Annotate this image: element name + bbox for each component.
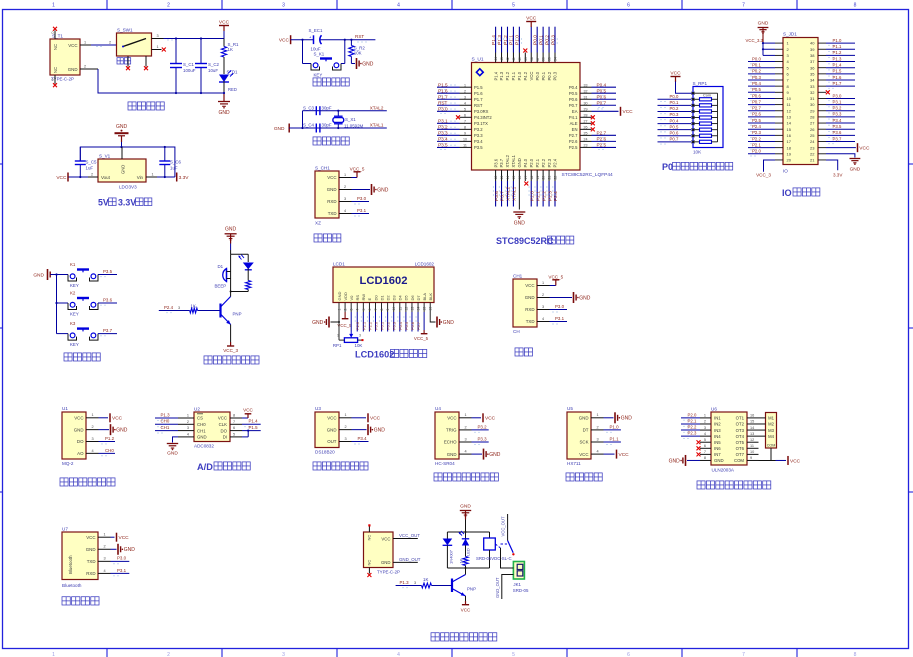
- svg-text:P0.6: P0.6: [569, 97, 578, 102]
- svg-text:P2.5: P2.5: [597, 143, 607, 148]
- svg-text:BLK: BLK: [428, 293, 433, 301]
- svg-text:CH0: CH0: [161, 419, 170, 424]
- power port VCC hx711: [604, 450, 630, 459]
- svg-text:16: 16: [518, 176, 522, 180]
- capacitor S_EC1 10uF electrolytic: [309, 28, 323, 52]
- svg-text:39: 39: [524, 57, 528, 61]
- ground GND crystal: [274, 124, 289, 133]
- svg-text:ECHO: ECHO: [444, 440, 457, 445]
- diode 1N4007 flyback: [443, 532, 454, 568]
- ground GND mcu: [513, 212, 525, 227]
- svg-text:1: 1: [344, 173, 346, 177]
- svg-text:1: 1: [542, 281, 544, 285]
- svg-text:GND: GND: [758, 21, 769, 27]
- svg-text:13: 13: [750, 432, 754, 436]
- svg-text:TYPE-C-2P: TYPE-C-2P: [51, 77, 74, 82]
- svg-text:OT2: OT2: [736, 422, 745, 427]
- svg-text:OT4: OT4: [736, 434, 745, 439]
- connector S_CH1 XZ download: [315, 166, 352, 226]
- regulator S_V1 LDO3V3: [98, 147, 146, 190]
- svg-text:3: 3: [464, 95, 466, 99]
- svg-text:GND: GND: [377, 187, 389, 193]
- svg-text:7: 7: [374, 309, 378, 311]
- svg-text:S_C6: S_C6: [170, 160, 182, 165]
- svg-text:Vout: Vout: [101, 175, 111, 180]
- svg-text:3: 3: [282, 3, 285, 9]
- wire net P0.7 to RP1: [658, 137, 692, 145]
- ground GND lcd left: [312, 312, 340, 328]
- label P0 pullup circuit: [662, 162, 733, 172]
- svg-text:U1: U1: [62, 406, 68, 411]
- wire lcd D0 net P0.0: [373, 312, 378, 332]
- svg-text:3: 3: [414, 581, 416, 585]
- net label P1.1 hx711: [604, 436, 621, 444]
- svg-text:P1.2: P1.2: [833, 50, 842, 55]
- svg-text:RS: RS: [355, 295, 360, 301]
- svg-text:VCC: VCC: [218, 416, 227, 421]
- svg-text:37: 37: [810, 59, 815, 64]
- resistor S_R1 1K: [221, 39, 239, 58]
- wire net P3.1 io: [826, 99, 855, 106]
- wire net P1.5 io: [826, 69, 855, 76]
- svg-text:VCC: VCC: [219, 19, 230, 25]
- svg-text:GND: GND: [121, 165, 126, 174]
- svg-text:P0.5: P0.5: [597, 88, 607, 93]
- svg-text:VCC: VCC: [485, 416, 496, 422]
- power port VCC adc: [242, 408, 254, 419]
- svg-text:3.3V: 3.3V: [179, 175, 190, 181]
- svg-text:1K: 1K: [423, 577, 428, 582]
- ground GND reset: [351, 58, 373, 69]
- svg-text:P3.2: P3.2: [474, 127, 483, 132]
- svg-text:39: 39: [810, 47, 815, 52]
- power port VCC_5 download: [350, 166, 365, 177]
- svg-text:3: 3: [187, 426, 189, 430]
- pin 5 left P3.0RX: [437, 106, 489, 114]
- motor connector M1-M4: [759, 413, 777, 449]
- svg-text:1N4007: 1N4007: [449, 549, 454, 564]
- svg-text:P1.1: P1.1: [511, 71, 516, 80]
- svg-text:S_EC1: S_EC1: [309, 28, 323, 33]
- svg-text:GND: GND: [669, 458, 681, 464]
- wire net P0.7 io: [748, 99, 775, 106]
- svg-text:MQ-2: MQ-2: [62, 461, 74, 466]
- svg-text:D6: D6: [410, 295, 415, 301]
- svg-text:1: 1: [464, 83, 466, 87]
- label alarm circuit: [204, 356, 259, 364]
- svg-text:P3.0RX: P3.0RX: [474, 109, 489, 114]
- svg-text:4: 4: [344, 209, 346, 213]
- svg-text:P0.0: P0.0: [373, 321, 378, 330]
- svg-text:P2.4: P2.4: [553, 158, 558, 167]
- svg-text:P0.1: P0.1: [670, 100, 679, 105]
- wire net P0.1 io: [748, 63, 775, 70]
- pin 39 top P4.2: [523, 49, 528, 81]
- svg-text:VCC: VCC: [86, 535, 95, 540]
- svg-text:GND: GND: [68, 67, 78, 72]
- svg-text:K2: K2: [70, 291, 76, 296]
- svg-text:6: 6: [368, 309, 372, 311]
- wire lcd D5 net P0.5: [404, 312, 409, 332]
- svg-text:1: 1: [597, 413, 599, 417]
- svg-text:CH: CH: [513, 329, 520, 334]
- svg-text:2: 2: [167, 3, 170, 9]
- pin 25 right P2.7: [569, 130, 616, 138]
- svg-text:P1.6: P1.6: [438, 88, 448, 93]
- net label P1.3 adc: [155, 412, 178, 420]
- wire JK1 pin2 GND_OUT: [495, 575, 513, 600]
- svg-text:P1.7: P1.7: [438, 94, 448, 99]
- svg-text:35: 35: [548, 57, 552, 61]
- svg-text:VCC: VCC: [623, 109, 634, 115]
- svg-text:U3: U3: [315, 406, 321, 411]
- svg-text:11: 11: [463, 144, 467, 148]
- svg-text:P0.2: P0.2: [547, 71, 552, 80]
- wire alarm bottom node: [230, 291, 249, 293]
- svg-text:IO: IO: [782, 188, 792, 198]
- svg-text:KEY: KEY: [70, 342, 79, 347]
- svg-text:9: 9: [750, 456, 752, 460]
- net label P1.5 adc DO: [242, 425, 261, 432]
- chip U4 HC-SR04 ultrasonic: [435, 406, 472, 466]
- svg-text:LCD1: LCD1: [333, 262, 345, 267]
- svg-text:IN4: IN4: [714, 434, 721, 439]
- svg-text:P1.7: P1.7: [833, 81, 842, 86]
- svg-text:30pF: 30pF: [322, 123, 332, 128]
- svg-text:GND: GND: [525, 295, 535, 300]
- svg-text:P3.0: P3.0: [555, 304, 565, 309]
- pin 34 top P0.3: [550, 27, 557, 81]
- wire net P1.7 io: [826, 81, 855, 88]
- svg-text:P3.3: P3.3: [833, 112, 842, 117]
- svg-text:CH1: CH1: [161, 425, 170, 430]
- svg-text:VCC_5: VCC_5: [350, 166, 365, 171]
- svg-text:P3.6: P3.6: [833, 130, 842, 135]
- ground GND io top: [758, 21, 769, 44]
- transistor PNP relay: [452, 568, 476, 601]
- svg-text:D5: D5: [404, 295, 409, 301]
- svg-text:VCC: VCC: [56, 175, 67, 181]
- svg-text:Vin: Vin: [137, 175, 144, 180]
- svg-text:BEEP: BEEP: [215, 284, 227, 289]
- label serial port: [515, 348, 532, 356]
- net label P2.3 uln: [681, 431, 700, 439]
- svg-text:2: 2: [465, 425, 467, 429]
- svg-text:1: 1: [345, 413, 347, 417]
- svg-text:STC89C52RC: STC89C52RC: [496, 236, 554, 246]
- svg-text:VCC: VCC: [670, 70, 681, 76]
- svg-text:5: 5: [464, 107, 466, 111]
- wire net P3.6 io: [826, 130, 855, 137]
- pin 4 left RST: [437, 100, 483, 108]
- svg-text:TXD: TXD: [87, 559, 96, 564]
- svg-text:DS18B20: DS18B20: [315, 450, 335, 455]
- svg-text:P3.0: P3.0: [438, 106, 448, 111]
- svg-text:P3.4: P3.4: [358, 436, 368, 441]
- wire net P2.3 io: [748, 130, 775, 137]
- svg-text:GND: GND: [850, 167, 861, 173]
- wire reset right branch: [341, 40, 345, 64]
- svg-text:S_RP1: S_RP1: [693, 81, 708, 86]
- pin IN7 no-connect: [697, 452, 701, 456]
- svg-text:VCC: VCC: [790, 458, 801, 464]
- pin 28 right P4.1: [569, 114, 595, 120]
- svg-text:S_C3: S_C3: [303, 105, 315, 110]
- net label P1.0 hx711: [604, 424, 621, 432]
- wire lcd D4 net P0.4: [398, 312, 403, 332]
- svg-text:38: 38: [530, 57, 534, 61]
- svg-text:BLA: BLA: [422, 293, 427, 301]
- svg-text:EA: EA: [572, 109, 578, 114]
- svg-text:21: 21: [810, 158, 815, 163]
- pin 12 bottom P3.6: [493, 158, 500, 206]
- svg-text:42: 42: [506, 57, 510, 61]
- svg-text:P1.4: P1.4: [491, 35, 497, 45]
- label crystal circuit: [313, 137, 349, 145]
- svg-text:P0.2: P0.2: [670, 106, 679, 111]
- svg-text:NC: NC: [53, 44, 58, 50]
- svg-text:P2.4: P2.4: [752, 124, 761, 129]
- svg-text:S_C5: S_C5: [86, 160, 98, 165]
- label LCD1602 display module: [355, 349, 427, 359]
- svg-text:P4.3INT2: P4.3INT2: [474, 115, 492, 120]
- pin 17 bottom P4.0: [523, 158, 528, 185]
- svg-text:7: 7: [464, 120, 466, 124]
- svg-text:17: 17: [787, 139, 792, 144]
- svg-text:4: 4: [397, 652, 400, 657]
- svg-text:VCC: VCC: [119, 535, 130, 541]
- svg-text:P1.3: P1.3: [833, 56, 842, 61]
- chip U7 Bluetooth: [62, 526, 111, 588]
- wire lcd D1 net P0.1: [380, 312, 385, 332]
- net label P3.0 bluetooth: [111, 556, 130, 564]
- svg-text:P3.7: P3.7: [499, 158, 504, 167]
- wire relay top rail: [447, 531, 489, 533]
- wire uln COM to VCC: [759, 448, 801, 465]
- svg-text:2: 2: [597, 425, 599, 429]
- pin 2 left P1.6: [437, 88, 483, 96]
- capacitor S_C4 30pF: [289, 123, 387, 133]
- svg-text:GND: GND: [124, 547, 136, 553]
- svg-text:IN6: IN6: [714, 446, 721, 451]
- svg-text:1K: 1K: [228, 47, 233, 52]
- connector JK1 SRD-05: [513, 562, 529, 594]
- power port VCC reset: [279, 35, 291, 44]
- svg-text:6: 6: [233, 426, 235, 430]
- svg-text:RXD: RXD: [525, 307, 534, 312]
- pin 6 left P4.3INT2: [456, 114, 492, 120]
- svg-text:IN3: IN3: [714, 428, 721, 433]
- svg-text:GND: GND: [579, 416, 589, 421]
- svg-text:1: 1: [84, 40, 86, 44]
- svg-text:D4: D4: [398, 295, 403, 301]
- svg-text:VCC: VCC: [327, 175, 336, 180]
- svg-text:HX711: HX711: [567, 461, 581, 466]
- svg-text:GND: GND: [327, 187, 337, 192]
- svg-text:30: 30: [584, 101, 588, 105]
- svg-text:3.3V: 3.3V: [833, 173, 843, 178]
- svg-text:P0.4: P0.4: [569, 85, 578, 90]
- svg-text:U6: U6: [711, 406, 717, 411]
- resistor 1K relay base: [396, 577, 452, 588]
- label AD conversion circuit: [197, 462, 250, 472]
- svg-text:M3: M3: [768, 428, 774, 433]
- svg-text:XTAL2: XTAL2: [505, 154, 510, 167]
- wire S_T1 GND to bottom rail: [80, 64, 224, 93]
- wire net P3.6: [98, 297, 117, 305]
- svg-text:P1.7: P1.7: [474, 97, 483, 102]
- svg-text:U4: U4: [435, 406, 441, 411]
- pin 35 top P0.2: [544, 27, 551, 81]
- svg-text:S_CH1: S_CH1: [315, 166, 330, 171]
- svg-text:VCC_5: VCC_5: [414, 336, 429, 341]
- pin 11 left P3.5: [437, 143, 483, 151]
- svg-text:D1: D1: [218, 264, 224, 269]
- svg-text:P3.3: P3.3: [438, 130, 448, 135]
- wire lcd E net P2.2: [367, 312, 372, 332]
- pin 1 left P1.5: [437, 82, 483, 90]
- svg-text:SCK: SCK: [579, 440, 588, 445]
- svg-text:VCC_5: VCC_5: [548, 274, 563, 279]
- svg-text:NC: NC: [367, 560, 372, 566]
- svg-text:CH0: CH0: [197, 422, 206, 427]
- svg-text:P0.7: P0.7: [670, 137, 679, 142]
- svg-text:K3: K3: [70, 321, 76, 326]
- svg-text:P2.0: P2.0: [688, 412, 697, 417]
- svg-text:1: 1: [337, 334, 339, 338]
- svg-text:1uF: 1uF: [86, 166, 94, 171]
- svg-text:7: 7: [742, 652, 745, 657]
- svg-text:GND: GND: [621, 416, 633, 422]
- svg-text:RW: RW: [361, 294, 366, 301]
- svg-text:14: 14: [787, 121, 792, 126]
- svg-text:40: 40: [518, 57, 522, 61]
- svg-text:IN7: IN7: [714, 452, 721, 457]
- crystal S_X1 11.0592M: [333, 110, 364, 130]
- svg-text:37: 37: [536, 57, 540, 61]
- svg-text:CH0: CH0: [105, 448, 114, 453]
- svg-text:GND: GND: [197, 435, 207, 440]
- svg-text:VCC_OUT: VCC_OUT: [399, 533, 420, 538]
- pin IN5 no-connect: [697, 440, 701, 444]
- label download port: [314, 234, 341, 242]
- pin 22 bottom P2.4: [553, 158, 560, 206]
- svg-text:8: 8: [233, 414, 235, 418]
- svg-text:XTAL2: XTAL2: [506, 186, 512, 201]
- transistor PNP alarm: [221, 292, 242, 343]
- svg-text:AO: AO: [77, 451, 84, 456]
- svg-text:2: 2: [345, 425, 347, 429]
- svg-text:VCC: VCC: [112, 416, 123, 422]
- wire ldo top rail: [80, 142, 175, 177]
- wire net P0.6 to RP1: [658, 130, 692, 138]
- svg-text:GND: GND: [443, 320, 455, 326]
- svg-text:STC89C52RC_LQFP44: STC89C52RC_LQFP44: [562, 172, 614, 178]
- svg-text:K1: K1: [70, 262, 76, 267]
- svg-text:25: 25: [810, 133, 815, 138]
- svg-text:P1.1: P1.1: [509, 35, 515, 45]
- pin 14 bottom XTAL2: [505, 154, 512, 206]
- ground GND keys: [33, 269, 56, 280]
- svg-text:P1.2: P1.2: [105, 436, 115, 441]
- svg-text:Com: Com: [703, 94, 711, 98]
- svg-text:TYPE-C-2P: TYPE-C-2P: [377, 570, 400, 575]
- svg-text:P0.0: P0.0: [670, 94, 679, 99]
- svg-text:S_SW1: S_SW1: [117, 27, 133, 32]
- svg-text:XTAL2: XTAL2: [370, 105, 384, 110]
- svg-text:29: 29: [584, 107, 588, 111]
- svg-text:P1.2: P1.2: [505, 71, 510, 80]
- svg-text:P0.2: P0.2: [752, 69, 761, 74]
- switch S_SW1: [117, 27, 152, 64]
- svg-text:GND: GND: [116, 124, 128, 130]
- svg-text:4: 4: [356, 309, 360, 311]
- svg-text:LED: LED: [466, 548, 471, 556]
- svg-text:P0.0: P0.0: [535, 71, 540, 80]
- svg-text:P3.1: P3.1: [438, 118, 448, 123]
- ground GND power circuit: [218, 92, 230, 116]
- power port VCC bluetooth: [111, 533, 130, 542]
- label key circuit: [64, 353, 100, 361]
- svg-text:13: 13: [787, 115, 792, 120]
- svg-text:40: 40: [810, 41, 815, 46]
- pin 24 right P2.6: [569, 136, 616, 144]
- svg-text:2: 2: [464, 89, 466, 93]
- svg-text:22: 22: [554, 176, 558, 180]
- wire io pins 1-3 VCC_3.3: [746, 38, 776, 55]
- svg-text:P0.1: P0.1: [541, 71, 546, 80]
- svg-text:VCC: VCC: [859, 146, 870, 152]
- svg-text:JK1: JK1: [513, 582, 521, 587]
- svg-text:SRD-05: SRD-05: [513, 588, 529, 593]
- wire net P3.7 io: [826, 136, 855, 143]
- svg-text:1: 1: [52, 3, 55, 9]
- pin 40 top P1.0: [515, 27, 522, 81]
- svg-text:VCC: VCC: [526, 15, 537, 21]
- svg-text:COM: COM: [734, 458, 744, 463]
- svg-text:5: 5: [362, 309, 366, 311]
- svg-text:VCC_3: VCC_3: [223, 348, 238, 353]
- pin 30 right P0.7: [569, 100, 616, 108]
- svg-text:P0.2: P0.2: [544, 35, 550, 45]
- label reset circuit: [313, 78, 349, 86]
- svg-text:P2.0: P2.0: [529, 158, 534, 167]
- wire net P0.3 to RP1: [658, 112, 692, 120]
- svg-text:D3: D3: [392, 295, 397, 301]
- power port VCC mq2: [99, 413, 123, 422]
- net label RST: [355, 34, 367, 42]
- pin 8 left P3.2: [437, 124, 483, 132]
- net label XTAL2: [370, 105, 384, 110]
- svg-text:10K: 10K: [354, 51, 362, 56]
- pin 36 top P0.1: [538, 27, 545, 81]
- svg-text:GND: GND: [312, 320, 324, 326]
- wire net P0.5 io: [748, 87, 775, 94]
- svg-text:VCC_3: VCC_3: [756, 173, 771, 178]
- svg-text:ADC0832: ADC0832: [194, 444, 214, 449]
- chip U6 ULN2003A: [700, 406, 759, 472]
- wire net P3.2 io: [826, 106, 855, 113]
- svg-text:2: 2: [344, 185, 346, 189]
- pin IN6 no-connect: [697, 446, 701, 450]
- svg-text:1: 1: [157, 45, 159, 49]
- svg-text:S_V1: S_V1: [99, 154, 111, 159]
- resistor network S_RP1 10K: [692, 81, 724, 155]
- wire switch pin3 to VCC rail: [152, 34, 225, 40]
- pin 0 bottom no-connect: [52, 75, 58, 87]
- pin 32 right P0.5: [569, 88, 616, 96]
- svg-text:16: 16: [787, 133, 792, 138]
